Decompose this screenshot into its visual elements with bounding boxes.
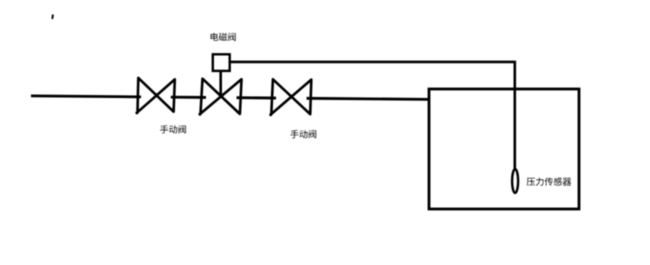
label 压力传感器 — [527, 177, 571, 185]
label 手动阀 — [160, 125, 186, 133]
valve V1 (manual valve, left) — [138, 78, 175, 112]
tank — [429, 89, 579, 209]
label 电磁阀 — [211, 33, 236, 41]
valve V1 bottom-left overshoot — [135, 111, 138, 114]
valve V3 (manual valve, right) — [271, 79, 311, 114]
stray tick mark — [51, 15, 53, 18]
pipe segment 4 (V3 to tank) — [307, 98, 430, 99]
solenoid actuator stem — [219, 71, 222, 97]
pipe segment 1 (inlet) — [31, 95, 141, 99]
pressure sensor probe — [512, 169, 518, 193]
solenoid actuator box — [213, 54, 230, 71]
valve V3 bottom-left overshoot — [269, 113, 272, 116]
pipe segment 2 (V1 to V2) — [171, 96, 206, 99]
pipe segment 3 (V2 to V3) — [237, 96, 277, 99]
label 手动阀 — [290, 130, 316, 138]
valve V2 bottom-left overshoot — [198, 113, 201, 116]
valve V2 (solenoid valve body, middle) — [201, 79, 242, 114]
signal wire from solenoid box to sensor — [230, 62, 515, 172]
